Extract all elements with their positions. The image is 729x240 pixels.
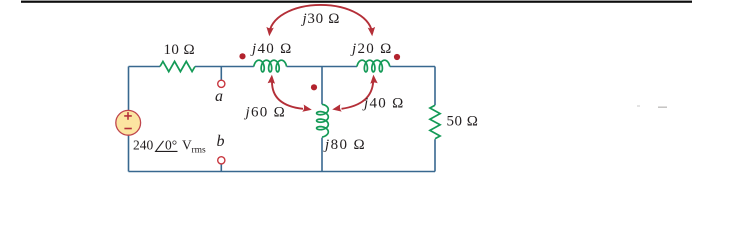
wire left branch lower (source bottom lead) (128, 135, 130, 171)
svg-text:j30 Ω: j30 Ω (301, 11, 341, 27)
arrowhead j30 left (down) (266, 27, 273, 36)
arrowhead j60 top (up) (268, 75, 275, 84)
svg-text:a: a (215, 88, 223, 105)
j30 coupling arc (270, 5, 373, 34)
coupling dot for j80 (311, 84, 317, 90)
svg-text:j20 Ω: j20 Ω (350, 41, 393, 57)
resistor 10ohm (160, 61, 195, 71)
svg-text:10 Ω: 10 Ω (164, 42, 196, 58)
arrowhead j40m top (up) (370, 75, 377, 84)
svg-text:b: b (217, 133, 225, 150)
coupling dot for j40 (left) (239, 53, 245, 59)
svg-text:50 Ω: 50 Ω (447, 114, 479, 130)
inductor j20 coil (357, 60, 390, 72)
voltage source plus sign (124, 112, 132, 128)
voltage source circle (116, 110, 141, 135)
terminal b circle (218, 157, 225, 164)
svg-text:j40 Ω: j40 Ω (250, 41, 293, 57)
wire top-left segment (129, 66, 161, 68)
voltage source minus sign (124, 128, 131, 130)
inductor j40 coil (254, 60, 287, 72)
svg-text:j80 Ω: j80 Ω (323, 137, 366, 153)
arrowhead j30 right (down) (368, 27, 375, 36)
wire between j20 coil and top-right corner (390, 66, 435, 68)
top rule line (21, 1, 692, 3)
coupling dot for j20 (right) (394, 54, 400, 60)
wire middle branch lower (j80 bottom lead) (321, 138, 323, 172)
j40 coupling arc (mutual j20-j80) (342, 82, 374, 109)
wire between j40 coil and j20 coil (through middle node) (287, 66, 357, 68)
wire right branch lower (50ohm bottom lead) (434, 139, 436, 171)
svg-text:j40 Ω: j40 Ω (362, 96, 405, 112)
j60 coupling arc (272, 82, 303, 109)
wire middle branch upper (j80 top lead) (321, 67, 323, 105)
wire stub to terminal a (220, 67, 222, 81)
arrowhead j40m left (left) (332, 104, 342, 111)
svg-text:V: V (182, 138, 192, 153)
wire left branch upper (source top lead) (128, 67, 130, 111)
svg-text:rms: rms (192, 146, 207, 156)
wire stub from terminal b (220, 164, 222, 171)
angle symbol (156, 141, 178, 152)
terminal a circle (218, 80, 225, 87)
inductor j80 coil (317, 104, 329, 137)
svg-text:0°: 0° (165, 138, 177, 153)
svg-text:240: 240 (133, 138, 154, 153)
stray print artifacts (637, 106, 640, 107)
resistor 50ohm (430, 105, 440, 139)
wire bottom rail (129, 171, 436, 173)
wire right branch upper (50ohm top lead) (434, 67, 436, 106)
svg-text:j60 Ω: j60 Ω (244, 104, 287, 120)
arrowhead j60 right (right) (302, 105, 312, 112)
wire between 10ohm resistor and j40 coil (195, 66, 254, 68)
